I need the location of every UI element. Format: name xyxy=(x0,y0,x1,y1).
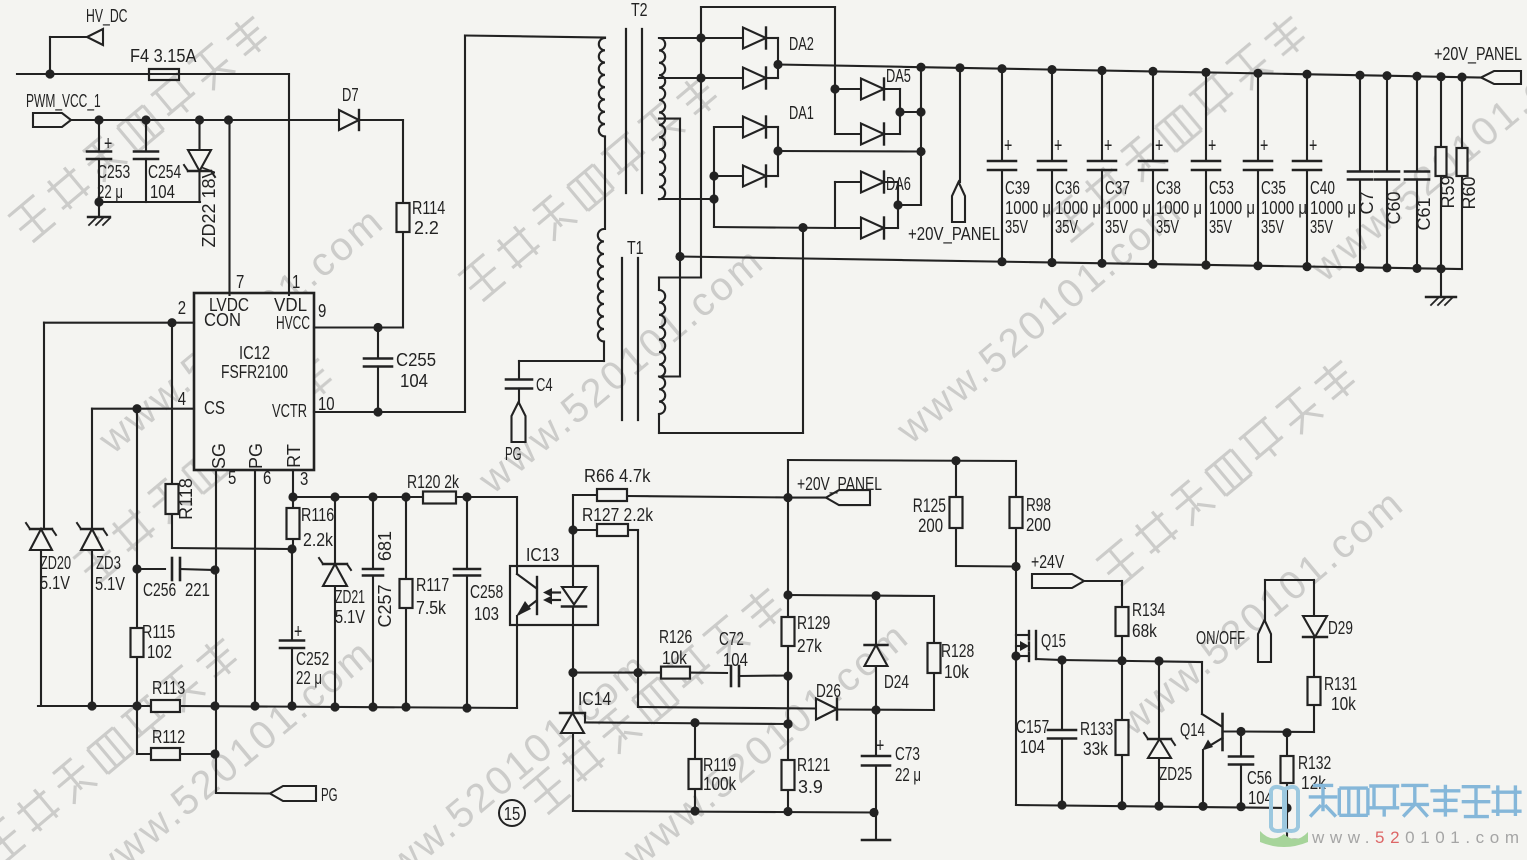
svg-text:R98: R98 xyxy=(1026,495,1051,515)
svg-text:+20V_PANEL: +20V_PANEL xyxy=(797,474,882,495)
svg-text:R132: R132 xyxy=(1298,753,1331,773)
svg-text:C60: C60 xyxy=(1384,191,1404,224)
svg-text:R127 2.2k: R127 2.2k xyxy=(582,505,654,525)
svg-text:DA2: DA2 xyxy=(789,34,814,54)
svg-text:5: 5 xyxy=(228,468,236,488)
svg-text:C4: C4 xyxy=(536,375,553,395)
svg-text:D24: D24 xyxy=(884,672,909,692)
svg-text:102: 102 xyxy=(147,642,172,662)
svg-text:1000 μ: 1000 μ xyxy=(1005,198,1051,218)
svg-text:200: 200 xyxy=(918,516,943,537)
svg-text:HVCC: HVCC xyxy=(276,313,310,333)
svg-text:681: 681 xyxy=(375,531,395,561)
svg-text:35V: 35V xyxy=(1105,217,1128,237)
svg-text:R114: R114 xyxy=(412,198,445,218)
svg-text:R125: R125 xyxy=(913,496,946,517)
svg-text:68k: 68k xyxy=(1132,621,1158,641)
svg-text:4: 4 xyxy=(178,389,186,409)
svg-text:R112: R112 xyxy=(152,727,185,747)
svg-text:C73: C73 xyxy=(895,744,920,764)
svg-text:C256: C256 xyxy=(143,580,176,600)
svg-text:R60: R60 xyxy=(1459,176,1479,209)
svg-text:1000 μ: 1000 μ xyxy=(1209,198,1255,218)
svg-text:1000 μ: 1000 μ xyxy=(1105,198,1151,218)
svg-text:2.2k: 2.2k xyxy=(303,530,334,550)
svg-text:100k: 100k xyxy=(703,774,737,794)
svg-text:27k: 27k xyxy=(797,636,823,656)
svg-text:ON/OFF: ON/OFF xyxy=(1196,628,1245,648)
svg-text:22 μ: 22 μ xyxy=(97,182,123,202)
svg-text:C36: C36 xyxy=(1055,178,1080,198)
svg-text:ZD21: ZD21 xyxy=(335,587,365,607)
svg-text:RT: RT xyxy=(284,444,304,468)
svg-text:+: + xyxy=(1054,135,1062,157)
svg-text:C7: C7 xyxy=(1357,191,1377,214)
svg-text:35V: 35V xyxy=(1261,217,1284,237)
svg-text:+: + xyxy=(1004,135,1012,157)
svg-text:C257: C257 xyxy=(375,584,395,627)
svg-text:www.520101.com: www.520101.com xyxy=(1311,828,1525,847)
svg-text:35V: 35V xyxy=(1005,217,1028,237)
svg-text:ZD25: ZD25 xyxy=(1159,764,1192,784)
svg-text:+: + xyxy=(1309,135,1317,157)
svg-text:10k: 10k xyxy=(944,662,970,682)
svg-text:6: 6 xyxy=(263,468,271,488)
svg-text:C61: C61 xyxy=(1414,197,1434,230)
svg-text:IC12: IC12 xyxy=(239,343,270,363)
svg-text:3: 3 xyxy=(300,469,308,489)
svg-text:1000 μ: 1000 μ xyxy=(1055,198,1101,218)
svg-text:2: 2 xyxy=(178,298,186,318)
svg-text:C56: C56 xyxy=(1247,768,1272,788)
svg-text:104: 104 xyxy=(400,371,428,391)
svg-text:R128: R128 xyxy=(941,641,974,661)
svg-text:221: 221 xyxy=(185,580,210,600)
svg-text:DA6: DA6 xyxy=(886,174,911,194)
svg-text:5.1V: 5.1V xyxy=(40,573,70,593)
svg-text:ZD20: ZD20 xyxy=(40,553,71,573)
svg-text:15: 15 xyxy=(504,804,521,824)
svg-text:C37: C37 xyxy=(1105,178,1130,198)
svg-text:+: + xyxy=(104,133,112,155)
svg-text:+24V: +24V xyxy=(1031,552,1064,572)
svg-text:R66 4.7k: R66 4.7k xyxy=(584,466,651,486)
svg-text:IC14: IC14 xyxy=(578,689,611,709)
svg-text:HV_DC: HV_DC xyxy=(86,6,128,27)
svg-text:+: + xyxy=(294,621,302,643)
svg-text:CS: CS xyxy=(204,398,225,418)
svg-text:Q14: Q14 xyxy=(1180,720,1205,740)
svg-text:C157: C157 xyxy=(1016,717,1049,737)
svg-text:35V: 35V xyxy=(1310,217,1333,237)
svg-text:R113: R113 xyxy=(152,678,185,698)
svg-text:104: 104 xyxy=(723,650,748,670)
svg-text:3.9: 3.9 xyxy=(798,777,823,797)
svg-text:7.5k: 7.5k xyxy=(416,598,447,618)
svg-text:C39: C39 xyxy=(1005,178,1030,198)
svg-text:10: 10 xyxy=(318,394,335,414)
svg-text:C252: C252 xyxy=(296,649,329,669)
svg-text:R131: R131 xyxy=(1324,674,1357,694)
svg-text:PG: PG xyxy=(505,444,522,464)
svg-text:C35: C35 xyxy=(1261,178,1286,198)
svg-text:CON: CON xyxy=(204,310,241,330)
svg-text:PWM_VCC_1: PWM_VCC_1 xyxy=(26,91,101,112)
svg-text:C253: C253 xyxy=(97,162,130,182)
svg-text:ZD22 18V: ZD22 18V xyxy=(199,166,219,247)
svg-text:R133: R133 xyxy=(1080,719,1113,739)
svg-text:D26: D26 xyxy=(816,681,841,701)
svg-text:200: 200 xyxy=(1026,515,1051,535)
svg-text:1: 1 xyxy=(292,272,300,292)
svg-text:103: 103 xyxy=(474,604,499,624)
svg-text:R129: R129 xyxy=(797,613,830,633)
svg-text:R59: R59 xyxy=(1438,175,1458,208)
svg-text:C40: C40 xyxy=(1310,178,1335,198)
svg-text:DA1: DA1 xyxy=(789,103,814,123)
svg-text:C72: C72 xyxy=(719,629,744,649)
svg-text:C255: C255 xyxy=(396,350,436,370)
svg-text:C53: C53 xyxy=(1209,178,1234,198)
svg-text:104: 104 xyxy=(150,182,175,202)
svg-text:D29: D29 xyxy=(1328,618,1353,638)
svg-text:+: + xyxy=(876,735,884,757)
svg-text:35V: 35V xyxy=(1156,217,1179,237)
svg-text:35V: 35V xyxy=(1055,217,1078,237)
svg-text:5.1V: 5.1V xyxy=(95,574,125,594)
svg-text:Q15: Q15 xyxy=(1041,631,1066,651)
svg-text:+: + xyxy=(1104,135,1112,157)
svg-text:35V: 35V xyxy=(1209,217,1232,237)
svg-text:R126: R126 xyxy=(659,627,692,647)
svg-text:R116: R116 xyxy=(301,505,334,525)
svg-text:DA5: DA5 xyxy=(886,66,911,86)
svg-text:+20V_PANEL: +20V_PANEL xyxy=(908,224,1000,245)
svg-text:+: + xyxy=(1155,135,1163,157)
svg-text:22 μ: 22 μ xyxy=(895,765,921,785)
svg-text:10k: 10k xyxy=(1331,694,1357,714)
svg-text:1000 μ: 1000 μ xyxy=(1156,198,1202,218)
svg-text:9: 9 xyxy=(318,301,326,321)
svg-text:R118: R118 xyxy=(176,478,196,520)
svg-text:R121: R121 xyxy=(797,755,830,775)
svg-text:ZD3: ZD3 xyxy=(96,553,121,573)
svg-text:VCTR: VCTR xyxy=(272,401,307,421)
svg-text:R119: R119 xyxy=(703,755,736,775)
svg-text:C258: C258 xyxy=(470,582,503,602)
svg-text:+: + xyxy=(1260,135,1268,157)
svg-text:C254: C254 xyxy=(148,162,181,182)
svg-text:5.1V: 5.1V xyxy=(335,607,365,627)
svg-text:104: 104 xyxy=(1020,737,1045,757)
svg-text:2.2: 2.2 xyxy=(414,218,439,238)
svg-text:22 μ: 22 μ xyxy=(296,668,322,688)
svg-text:+20V_PANEL: +20V_PANEL xyxy=(1434,44,1522,65)
svg-text:T2: T2 xyxy=(631,0,648,20)
svg-text:PG: PG xyxy=(321,785,338,805)
svg-text:PG: PG xyxy=(246,443,266,469)
svg-text:7: 7 xyxy=(236,272,244,292)
svg-text:IC13: IC13 xyxy=(526,545,559,565)
svg-text:R134: R134 xyxy=(1132,600,1165,620)
svg-text:R120 2k: R120 2k xyxy=(407,472,460,492)
svg-text:C38: C38 xyxy=(1156,178,1181,198)
svg-text:10k: 10k xyxy=(662,648,688,668)
svg-text:1000 μ: 1000 μ xyxy=(1310,198,1356,218)
svg-text:F4 3.15A: F4 3.15A xyxy=(130,46,196,66)
svg-text:FSFR2100: FSFR2100 xyxy=(221,362,288,382)
svg-text:R117: R117 xyxy=(416,575,449,595)
svg-text:33k: 33k xyxy=(1083,739,1109,759)
svg-text:1000 μ: 1000 μ xyxy=(1261,198,1307,218)
svg-text:T1: T1 xyxy=(627,238,644,258)
svg-text:VDL: VDL xyxy=(274,295,307,315)
svg-text:R115: R115 xyxy=(142,622,175,642)
svg-text:+: + xyxy=(1208,135,1216,157)
svg-text:D7: D7 xyxy=(342,85,359,105)
svg-text:SG: SG xyxy=(209,443,229,469)
